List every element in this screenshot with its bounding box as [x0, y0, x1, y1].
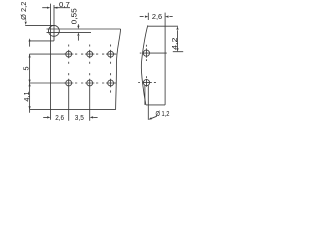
dimension left vertical line [29, 42, 31, 113]
node row2 centerline [30, 82, 66, 84]
hole row1-3 [108, 51, 114, 57]
hole row1-1 [66, 51, 72, 57]
dimension 2,6 right drawing [140, 13, 173, 20]
wire top edge left [30, 40, 54, 42]
wire break line left drawing [116, 29, 121, 110]
svg-text:3,5: 3,5 [75, 113, 84, 122]
arrow dim41 down [29, 106, 31, 109]
svg-text:Ø 1,2: Ø 1,2 [156, 109, 170, 118]
wire bottom edge left drawing [30, 109, 116, 111]
leader Ø1,2 [150, 116, 157, 119]
svg-text:2,6: 2,6 [152, 12, 162, 21]
wire pin bottom line [47, 31, 92, 33]
hole R2 bore lines [145, 86, 148, 120]
hole R2 right drawing [143, 80, 149, 86]
svg-text:4,1: 4,1 [22, 91, 31, 101]
hole row2-3 [108, 80, 114, 86]
right drawing bottom edge [146, 104, 165, 106]
wire pin top line [47, 28, 121, 30]
wire pin left vertical long line [50, 4, 52, 120]
svg-text:5: 5 [21, 67, 30, 71]
dimension bottom 2,6 / 3,5 [43, 116, 97, 118]
hole row2-2 [87, 80, 93, 86]
arrow dim5 down [29, 80, 31, 83]
svg-text:Ø 2,2: Ø 2,2 [19, 2, 28, 20]
hole row2-1 [66, 80, 72, 86]
right drawing break edge wavy [141, 25, 147, 105]
right drawing top edge [148, 25, 178, 27]
svg-text:4,2: 4,2 [170, 38, 179, 50]
leader Ø2,2 [25, 20, 54, 26]
dimension 0,7 top [42, 7, 70, 9]
dimension 0,55 right of circle [77, 24, 79, 40]
right drawing interior vertical line [164, 13, 166, 105]
node row1 centerline [30, 53, 66, 55]
arrow dim41 up [29, 83, 31, 86]
dimension 4,2 right drawing [173, 30, 183, 52]
svg-text:0,7: 0,7 [59, 0, 70, 9]
hole R1 right drawing [143, 50, 149, 56]
hole row1-2 [87, 51, 93, 57]
svg-text:2,6: 2,6 [55, 113, 64, 122]
hole D1 circle Ø2,2 [48, 25, 59, 36]
arrow top edge up [29, 38, 31, 41]
svg-text:0,55: 0,55 [69, 8, 78, 24]
wire pin right vertical line [53, 5, 55, 41]
arrow dim5 up [29, 54, 31, 57]
